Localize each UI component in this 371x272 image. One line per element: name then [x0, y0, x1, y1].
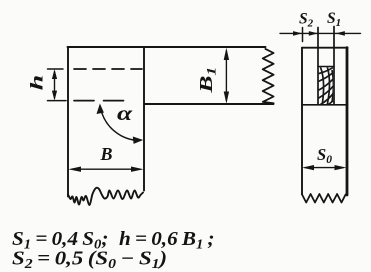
- svg-text:B: B: [99, 144, 112, 164]
- svg-text:α: α: [117, 102, 133, 125]
- svg-text:h: h: [27, 75, 47, 91]
- svg-text:S2 = 0,5 (S0 − S1): S2 = 0,5 (S0 − S1): [12, 247, 167, 272]
